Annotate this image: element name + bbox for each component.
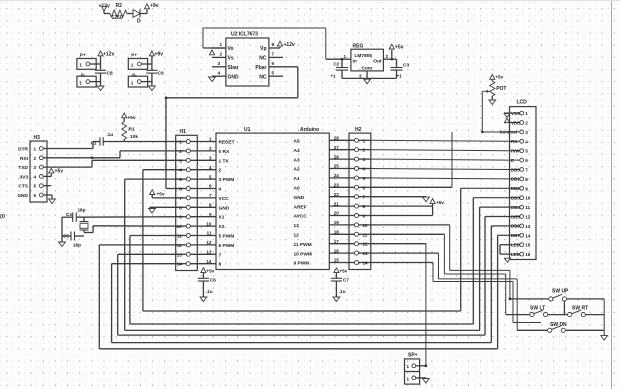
svg-text:13: 13 — [363, 251, 369, 256]
svg-text:VDD: VDD — [511, 120, 520, 125]
svg-text:7: 7 — [209, 193, 212, 198]
svg-text:24: 24 — [334, 173, 340, 178]
svg-text:GND: GND — [294, 195, 305, 201]
svg-text:3V3: 3V3 — [19, 174, 28, 180]
svg-text:18: 18 — [334, 230, 340, 235]
svg-text:A4: A4 — [294, 148, 300, 154]
svg-text:9: 9 — [209, 212, 212, 217]
svg-text:Com: Com — [362, 66, 373, 72]
svg-text:DB1: DB1 — [511, 177, 520, 182]
svg-text:3: 3 — [359, 74, 362, 79]
svg-text:X2: X2 — [219, 224, 225, 230]
svg-text:.1u: .1u — [339, 289, 346, 294]
svg-text:1: 1 — [131, 81, 134, 86]
svg-text:.1u: .1u — [206, 289, 213, 294]
svg-text:6 PWM: 6 PWM — [219, 243, 235, 249]
svg-text:22: 22 — [334, 192, 340, 197]
svg-text:C1: C1 — [91, 141, 97, 146]
svg-text:P+: P+ — [131, 53, 137, 58]
svg-text:4: 4 — [219, 187, 222, 193]
svg-text:9: 9 — [525, 186, 528, 191]
svg-text:RXI: RXI — [20, 156, 29, 162]
svg-text:AVCC: AVCC — [294, 214, 308, 220]
svg-text:SW RT: SW RT — [572, 306, 588, 312]
svg-text:13: 13 — [294, 223, 300, 229]
svg-text:2: 2 — [34, 156, 37, 161]
svg-text:Vo: Vo — [228, 46, 234, 52]
svg-text:P+: P+ — [80, 53, 86, 58]
svg-text:11: 11 — [207, 231, 212, 236]
svg-text:5: 5 — [209, 174, 212, 179]
svg-text:3: 3 — [525, 130, 528, 135]
svg-text:27: 27 — [334, 145, 340, 150]
svg-text:1250: 1250 — [112, 15, 123, 21]
svg-text:(0: (0 — [0, 214, 5, 220]
svg-text:15: 15 — [525, 243, 531, 248]
svg-text:1: 1 — [209, 137, 212, 142]
svg-text:8: 8 — [209, 203, 212, 208]
svg-text:TXD: TXD — [18, 165, 28, 171]
svg-text:14: 14 — [525, 233, 531, 238]
svg-text:RESET: RESET — [219, 140, 235, 146]
svg-text:A3: A3 — [294, 157, 300, 163]
svg-text:SW LT: SW LT — [530, 306, 545, 312]
svg-text:+5v: +5v — [395, 45, 404, 51]
svg-text:+1: +1 — [397, 74, 403, 79]
svg-text:R/W: R/W — [511, 149, 520, 154]
svg-text:1: 1 — [220, 42, 223, 47]
svg-text:1: 1 — [79, 81, 82, 86]
svg-text:RS: RS — [511, 139, 517, 144]
svg-text:C8: C8 — [107, 71, 113, 77]
svg-text:20: 20 — [334, 211, 340, 216]
svg-text:DB4: DB4 — [511, 205, 520, 210]
svg-text:2: 2 — [220, 52, 223, 57]
svg-text:1: 1 — [79, 63, 82, 68]
svg-text:REG: REG — [353, 44, 364, 50]
svg-text:Pbar: Pbar — [255, 65, 266, 71]
svg-text:2: 2 — [525, 121, 528, 126]
svg-text:8: 8 — [272, 42, 275, 47]
svg-text:28: 28 — [334, 136, 340, 141]
svg-text:16: 16 — [525, 252, 531, 257]
svg-text:6: 6 — [209, 184, 212, 189]
svg-text:NC: NC — [259, 56, 267, 62]
svg-text:12: 12 — [206, 240, 212, 245]
svg-text:VCC: VCC — [219, 196, 230, 202]
svg-text:15: 15 — [334, 258, 340, 263]
svg-text:21: 21 — [334, 201, 340, 206]
svg-text:C9: C9 — [158, 71, 164, 77]
svg-text:DB3: DB3 — [511, 196, 520, 201]
svg-text:H2: H2 — [355, 127, 362, 133]
svg-text:C4: C4 — [66, 212, 72, 217]
svg-text:5: 5 — [525, 149, 528, 154]
svg-text:+5v: +5v — [157, 192, 165, 198]
svg-text:10: 10 — [206, 221, 212, 226]
svg-text:H3: H3 — [34, 135, 41, 141]
svg-text:+9v: +9v — [155, 52, 164, 58]
svg-text:12: 12 — [294, 233, 300, 239]
svg-text:13: 13 — [525, 224, 531, 229]
svg-text:+5v: +5v — [339, 268, 347, 273]
svg-text:GND: GND — [219, 205, 230, 211]
svg-text:NC: NC — [259, 75, 267, 81]
svg-text:6: 6 — [34, 193, 37, 198]
svg-text:7: 7 — [219, 252, 222, 258]
svg-text:6: 6 — [272, 61, 275, 66]
svg-text:A2: A2 — [294, 167, 300, 173]
svg-text:4: 4 — [218, 71, 221, 76]
svg-text:+12v: +12v — [103, 52, 114, 58]
svg-text:12: 12 — [525, 215, 531, 220]
svg-text:+12v: +12v — [284, 42, 295, 48]
svg-text:E: E — [511, 158, 514, 163]
svg-text:10k: 10k — [130, 134, 138, 140]
svg-text:C7: C7 — [343, 278, 349, 283]
svg-text:SW DN: SW DN — [550, 322, 567, 328]
svg-text:In: In — [353, 59, 357, 65]
svg-text:C3: C3 — [403, 63, 409, 69]
svg-text:R2: R2 — [116, 3, 123, 9]
svg-text:5: 5 — [272, 71, 275, 76]
svg-text:1: 1 — [407, 377, 410, 382]
svg-text:4: 4 — [209, 165, 212, 170]
svg-text:VSS: VSS — [511, 111, 520, 116]
svg-text:13: 13 — [206, 250, 212, 255]
svg-text:2: 2 — [219, 168, 222, 174]
svg-text:26: 26 — [334, 154, 340, 159]
svg-text:SW UP: SW UP — [552, 289, 569, 295]
svg-text:11: 11 — [525, 205, 530, 210]
svg-text:A1: A1 — [294, 176, 300, 182]
svg-text:4: 4 — [525, 139, 528, 144]
svg-text:A5: A5 — [294, 139, 300, 145]
svg-text:5: 5 — [34, 184, 37, 189]
svg-text:U1: U1 — [244, 127, 251, 133]
svg-text:+1: +1 — [331, 74, 337, 79]
svg-text:3: 3 — [34, 165, 37, 170]
svg-text:SP+: SP+ — [408, 353, 418, 359]
svg-text:14: 14 — [363, 261, 369, 266]
svg-text:11 PWM: 11 PWM — [294, 242, 312, 248]
svg-text:Arduino: Arduino — [300, 127, 319, 133]
svg-text:25: 25 — [334, 164, 340, 169]
svg-text:R1: R1 — [129, 127, 135, 133]
svg-text:1: 1 — [343, 54, 346, 59]
svg-text:14: 14 — [206, 259, 212, 264]
svg-text:.1u: .1u — [107, 132, 114, 137]
svg-text:1: 1 — [525, 111, 528, 116]
svg-text:1: 1 — [34, 147, 37, 152]
svg-text:3: 3 — [218, 61, 221, 66]
svg-text:+5v: +5v — [206, 268, 214, 273]
svg-text:8: 8 — [219, 262, 222, 268]
svg-text:DB0: DB0 — [511, 167, 520, 172]
svg-text:C2: C2 — [334, 62, 340, 67]
svg-text:1 TX: 1 TX — [219, 158, 230, 164]
svg-text:GND: GND — [228, 75, 240, 81]
svg-text:9 PWM: 9 PWM — [294, 261, 310, 267]
svg-text:GND: GND — [17, 193, 28, 199]
svg-text:1: 1 — [407, 364, 410, 369]
svg-text:+9v: +9v — [150, 3, 159, 9]
svg-text:2: 2 — [209, 146, 212, 151]
svg-text:10: 10 — [363, 223, 369, 228]
svg-text:8: 8 — [525, 177, 528, 182]
svg-text:D: D — [137, 19, 141, 25]
svg-text:U2 ICL7673: U2 ICL7673 — [231, 32, 258, 38]
svg-text:18p: 18p — [73, 243, 81, 248]
svg-text:DTR: DTR — [18, 147, 28, 153]
svg-text:Vp: Vp — [260, 46, 266, 52]
svg-text:Sbar: Sbar — [228, 65, 239, 71]
svg-text:10: 10 — [525, 196, 531, 201]
svg-text:11: 11 — [363, 232, 368, 237]
svg-text:LCD: LCD — [517, 100, 528, 106]
svg-text:+5v: +5v — [55, 169, 64, 175]
svg-text:POT: POT — [496, 86, 506, 92]
svg-text:3: 3 — [209, 156, 212, 161]
svg-text:7: 7 — [525, 168, 528, 173]
svg-text:DB6: DB6 — [511, 224, 520, 229]
svg-text:6: 6 — [525, 158, 528, 163]
svg-text:+5v: +5v — [495, 75, 503, 80]
svg-text:18p: 18p — [78, 208, 86, 213]
svg-text:7: 7 — [272, 52, 275, 57]
svg-text:Out: Out — [373, 59, 382, 65]
svg-text:12: 12 — [363, 242, 369, 247]
svg-text:AREF: AREF — [294, 204, 307, 210]
svg-text:Vs: Vs — [228, 56, 234, 62]
svg-text:X1: X1 — [219, 215, 225, 221]
svg-text:5 PWM: 5 PWM — [219, 234, 235, 240]
svg-text:17: 17 — [334, 239, 340, 244]
svg-text:+5v: +5v — [128, 115, 136, 121]
svg-text:DB7: DB7 — [511, 233, 520, 238]
svg-text:DB5: DB5 — [511, 214, 520, 219]
svg-text:CTS: CTS — [18, 184, 28, 190]
svg-text:DB2: DB2 — [511, 186, 520, 191]
svg-text:+5v: +5v — [436, 200, 444, 205]
svg-text:LM7805: LM7805 — [355, 53, 373, 59]
svg-text:0 RX: 0 RX — [219, 149, 230, 155]
svg-text:16: 16 — [334, 248, 340, 253]
svg-text:A0: A0 — [294, 186, 300, 192]
svg-text:4: 4 — [34, 174, 37, 179]
svg-text:10 PWM: 10 PWM — [294, 251, 312, 257]
svg-text:19: 19 — [334, 220, 340, 225]
svg-text:1: 1 — [131, 63, 134, 68]
svg-text:3 PWM: 3 PWM — [219, 177, 235, 183]
svg-text:C6: C6 — [210, 278, 216, 283]
svg-text:23: 23 — [334, 183, 340, 188]
svg-text:2: 2 — [386, 54, 389, 59]
svg-text:H1: H1 — [180, 129, 187, 135]
